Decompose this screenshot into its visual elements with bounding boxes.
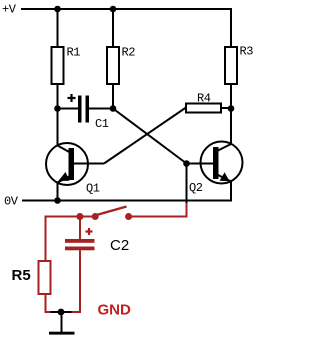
wire R5 bottom lead to ground line bbox=[45, 294, 81, 313]
svg-text:R1: R1 bbox=[67, 45, 81, 59]
svg-text:R4: R4 bbox=[197, 92, 211, 106]
wire C1 right lead bbox=[89, 108, 113, 110]
wire Q2 base lead bbox=[187, 163, 214, 165]
resistor R5 bbox=[12, 261, 51, 294]
resistor R3 bbox=[225, 45, 253, 85]
svg-text:0V: 0V bbox=[4, 194, 19, 208]
node +V label bbox=[2, 3, 17, 17]
svg-text:+V: +V bbox=[2, 3, 17, 17]
node junction dot R4 to right column bbox=[228, 105, 235, 112]
wire 0V rail bbox=[22, 200, 231, 202]
wire diagonal C1 right to Q2 base bbox=[113, 109, 187, 164]
wire trigger vertical red part bbox=[186, 203, 188, 217]
node junction dot C2 branch bbox=[76, 213, 83, 220]
transistor Q1 bbox=[46, 143, 100, 195]
capacitor C2 bbox=[65, 228, 129, 254]
wire trigger horizontal right of switch bbox=[129, 216, 188, 218]
node junction dot on +V rail at R2 bbox=[110, 6, 117, 13]
node junction dot on +V rail at R1 bbox=[54, 6, 61, 13]
node junction dot Q2 base bbox=[183, 160, 190, 167]
wire diagonal Q1 base to R4 bbox=[104, 108, 186, 164]
switch SW1 left terminal bbox=[92, 213, 99, 220]
resistor R1 bbox=[52, 45, 81, 84]
wire Q1 emitter to 0V rail bbox=[57, 182, 59, 201]
node junction dot Q1 emitter on 0V rail bbox=[54, 197, 61, 204]
switch SW1 right terminal bbox=[125, 213, 132, 220]
wire R3 bottom lead down to Q2 collector bbox=[230, 84, 232, 144]
svg-text:Q2: Q2 bbox=[189, 181, 203, 195]
transistor Q2 bbox=[189, 142, 243, 196]
wire R2 top lead bbox=[112, 9, 114, 47]
svg-text:GND: GND bbox=[98, 302, 132, 319]
resistor R4 bbox=[186, 92, 221, 113]
svg-text:R5: R5 bbox=[12, 267, 31, 284]
wire C2 top lead bbox=[79, 217, 81, 240]
wire switch to C2 and R5 bbox=[46, 217, 96, 262]
wire right column from top rail corner down to R3 bbox=[230, 8, 232, 47]
capacitor C1 bbox=[68, 94, 109, 131]
switch SW1 lever bbox=[97, 207, 127, 216]
wire Q2 emitter to 0V rail corner bbox=[230, 182, 232, 202]
svg-text:C1: C1 bbox=[95, 117, 109, 131]
wire C1 left lead bbox=[58, 108, 79, 110]
svg-text:Q1: Q1 bbox=[86, 181, 100, 195]
wire R2 bottom lead bbox=[112, 84, 114, 109]
wire R4 right lead bbox=[221, 107, 231, 109]
node junction dot C1 right bbox=[110, 105, 117, 112]
node junction dot ground bbox=[58, 309, 65, 316]
node GND label bbox=[98, 302, 132, 319]
svg-text:R3: R3 bbox=[240, 45, 254, 59]
wire R1 top lead bbox=[57, 9, 59, 47]
node 0V label bbox=[4, 194, 19, 208]
wire C2 bottom lead bbox=[79, 250, 81, 313]
svg-text:C2: C2 bbox=[110, 237, 129, 254]
wire Q2 base down to trigger (black part) bbox=[186, 164, 188, 205]
resistor R2 bbox=[107, 45, 135, 84]
svg-text:R2: R2 bbox=[122, 45, 136, 59]
wire Q1 base lead bbox=[74, 163, 104, 165]
node junction dot C1 left bbox=[54, 105, 61, 112]
wire R1 bottom lead down to Q1 collector bbox=[57, 84, 59, 146]
ground bbox=[49, 312, 75, 335]
wire top +V rail bbox=[21, 8, 232, 10]
